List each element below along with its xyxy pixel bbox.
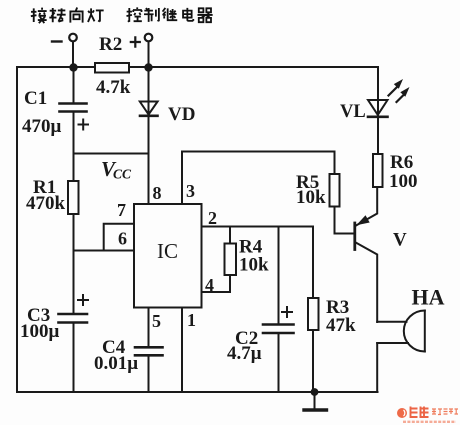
svg-text:100: 100 bbox=[389, 171, 418, 192]
svg-text:4.7μ: 4.7μ bbox=[227, 343, 262, 364]
svg-text:VD: VD bbox=[168, 104, 195, 125]
svg-text:47k: 47k bbox=[326, 315, 356, 336]
svg-text:10k: 10k bbox=[296, 187, 326, 208]
svg-text:6: 6 bbox=[118, 229, 127, 249]
svg-text:100μ: 100μ bbox=[20, 321, 60, 342]
svg-text:V: V bbox=[393, 230, 407, 251]
svg-text:CC: CC bbox=[113, 167, 132, 182]
svg-text:C1: C1 bbox=[24, 88, 47, 109]
svg-text:0.01μ: 0.01μ bbox=[94, 353, 138, 374]
svg-text:4.7k: 4.7k bbox=[96, 77, 131, 98]
svg-text:1: 1 bbox=[187, 310, 196, 330]
svg-text:10k: 10k bbox=[239, 255, 269, 276]
svg-text:R2: R2 bbox=[99, 34, 122, 55]
svg-text:470k: 470k bbox=[26, 193, 66, 214]
svg-text:3: 3 bbox=[186, 181, 195, 201]
svg-text:470μ: 470μ bbox=[22, 116, 62, 137]
svg-text:7: 7 bbox=[117, 200, 126, 220]
svg-text:R6: R6 bbox=[390, 152, 413, 173]
svg-text:HA: HA bbox=[412, 285, 445, 310]
svg-text:IC: IC bbox=[157, 239, 178, 263]
svg-text:5: 5 bbox=[152, 311, 161, 331]
svg-text:VL: VL bbox=[340, 102, 366, 122]
svg-text:2: 2 bbox=[208, 208, 217, 228]
svg-text:8: 8 bbox=[153, 183, 162, 203]
svg-text:4: 4 bbox=[205, 275, 214, 295]
